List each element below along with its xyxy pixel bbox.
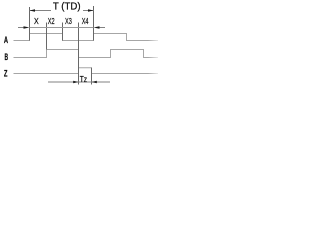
wire X dimension right tail [100, 27, 106, 29]
wire waveform A trace [14, 34, 159, 41]
arrow Tz right (points left) [92, 81, 97, 83]
node tick x=29.5 period start [29, 7, 31, 41]
wire waveform Z trace [14, 68, 159, 74]
wire waveform B trace [14, 50, 159, 58]
node tick x=62.5 quarter 2 [62, 23, 64, 41]
node tick x=78.5 quarter 3 [78, 23, 80, 85]
arrow T left [30, 9, 36, 11]
node tick x=91.5 Tz right edge extension [91, 68, 93, 85]
wire trace fade-out at right edge [148, 30, 159, 80]
wire X dimension line [30, 27, 94, 29]
wire X dimension left tail [18, 27, 24, 29]
arrow X left (points right at tick) [24, 26, 30, 28]
svg-text:T (TD): T (TD) [53, 2, 81, 13]
svg-text:Tz: Tz [80, 75, 87, 84]
arrow X right (points left at tick) [94, 26, 100, 28]
node tick x=46.5 quarter 1 [46, 23, 48, 50]
arrow T right [88, 9, 94, 11]
node tick x=93.5 period end [93, 6, 95, 41]
wire Tz dimension line [48, 81, 110, 83]
svg-text:B: B [5, 52, 9, 63]
svg-text:X2: X2 [48, 17, 55, 26]
svg-text:Z: Z [4, 69, 8, 80]
wire T dimension line right segment [83, 10, 94, 12]
svg-text:X3: X3 [65, 17, 72, 26]
svg-text:X4: X4 [82, 17, 89, 26]
background [0, 0, 162, 90]
svg-text:A: A [4, 35, 8, 46]
wire T dimension line left segment [30, 10, 52, 12]
svg-text:X: X [34, 17, 39, 26]
arrow Tz left (points right) [73, 81, 78, 83]
